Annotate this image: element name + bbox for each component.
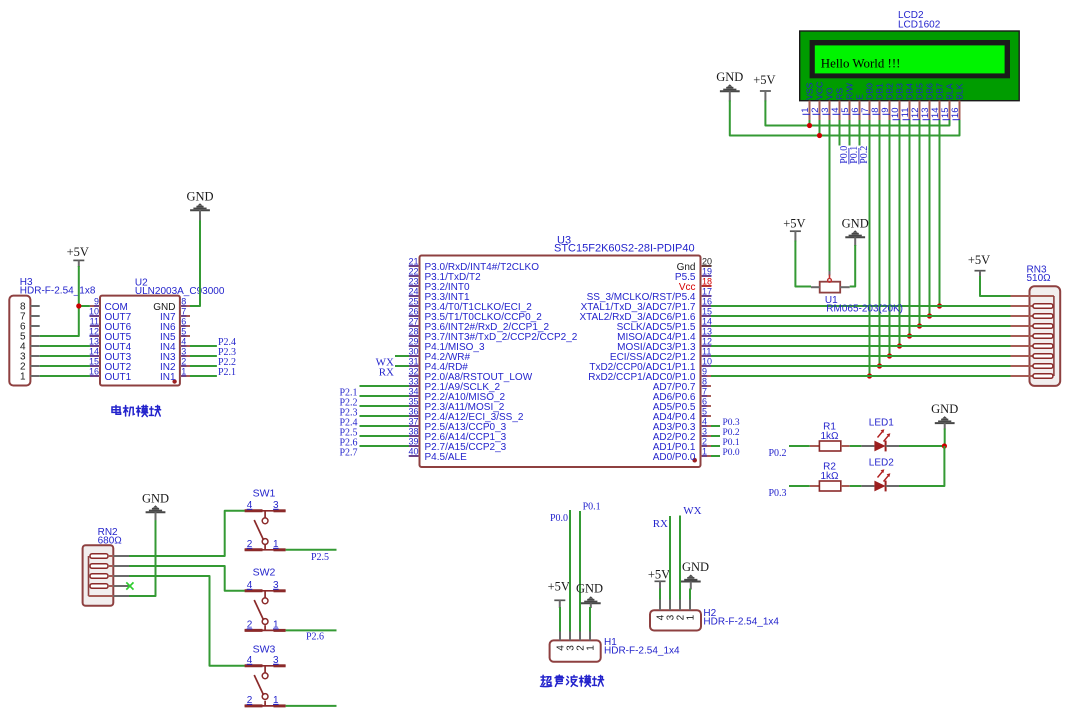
LCD pin stub 1 — [809, 101, 811, 121]
H3 pin 6 stub — [30, 325, 39, 327]
junction data bus — [907, 333, 912, 338]
svg-text:1: 1 — [273, 619, 279, 630]
svg-text:16: 16 — [950, 108, 961, 119]
svg-text:2: 2 — [702, 437, 707, 447]
U3 pin 31 stub — [409, 365, 420, 367]
wire RX stub pin31 — [395, 365, 409, 367]
svg-text:+5V: +5V — [783, 217, 805, 231]
LCD pin number 9 — [880, 108, 891, 115]
wire P1.2 bus row — [711, 355, 1011, 357]
svg-text:P2.1: P2.1 — [218, 367, 236, 378]
U3 pin 4 stub — [701, 425, 712, 427]
wire DB7 vertical to bus — [939, 120, 941, 306]
wire P2.6 stub pin38 — [360, 435, 410, 437]
svg-text:3: 3 — [181, 347, 186, 357]
net label P0.1 — [849, 146, 860, 165]
wire GND down to node — [944, 429, 946, 447]
RN3 resistor element 7 — [1011, 364, 1053, 369]
svg-text:1: 1 — [20, 372, 26, 383]
svg-text:+5V: +5V — [548, 580, 570, 594]
wire P1.7 bus row — [711, 305, 1011, 307]
U3 pin 28 stub — [409, 335, 420, 337]
wire +5V stem grey H3 — [78, 260, 80, 267]
svg-text:1: 1 — [273, 539, 279, 550]
LCD pin number 8 — [870, 108, 881, 115]
junction data bus — [927, 313, 932, 318]
U2 pin-1 marker dot — [172, 379, 176, 383]
U3 pin 23 stub — [409, 285, 420, 287]
wire P0.3 stub pin4 — [711, 425, 720, 427]
svg-text:25: 25 — [408, 297, 418, 307]
wire P0.2 stub from LCD — [859, 120, 861, 146]
svg-text:5: 5 — [702, 407, 707, 417]
U3 pin 35 stub — [409, 405, 420, 407]
header H3 reference labels — [20, 277, 96, 297]
LCD pin number 2 — [810, 108, 821, 115]
wire VSS pin1 drop — [809, 120, 811, 126]
header H1 body — [550, 640, 601, 661]
U3 pin 21 stub — [409, 265, 420, 267]
svg-text:4: 4 — [247, 655, 253, 666]
header H1 reference labels — [604, 637, 680, 657]
svg-text:+5V: +5V — [753, 73, 775, 87]
RN3 resistor element 1 — [1011, 304, 1053, 309]
U3 pin 9 stub — [701, 375, 712, 377]
svg-text:P0.1: P0.1 — [583, 502, 601, 513]
svg-text:BLA: BLA — [945, 83, 955, 100]
svg-text:8: 8 — [702, 377, 707, 387]
svg-text:E: E — [855, 94, 865, 100]
wire RN2-2 to SW2 pin4 — [129, 566, 245, 591]
RN2 resistor element 4 — [90, 584, 113, 589]
no-connect X marker — [126, 582, 133, 589]
LCD pin stub 2 — [819, 101, 821, 121]
U3 pin 30 stub — [409, 355, 420, 357]
wire GND to H2 pin1 — [689, 589, 691, 600]
resistor R2 — [810, 481, 850, 491]
H3 pin 4 stub — [30, 345, 39, 347]
svg-text:27: 27 — [408, 317, 418, 327]
wire WX stub pin30 — [395, 355, 409, 357]
RN2 pin lead 5 — [113, 595, 129, 597]
switch SW3 — [245, 666, 286, 706]
wire P0.1 stub from LCD — [849, 120, 851, 146]
H3 pin 5 stub — [30, 335, 39, 337]
junction +5V COM — [76, 303, 81, 308]
wire GND stem grey U2 — [199, 210, 201, 221]
svg-text:11: 11 — [702, 347, 711, 357]
wire DB6 vertical to bus — [929, 120, 931, 316]
svg-text:DB7: DB7 — [935, 83, 945, 100]
RN3 resistor element 6 — [1011, 354, 1053, 359]
wire WX to H2 pin2 — [679, 516, 681, 600]
wire DB5 vertical to bus — [919, 120, 921, 326]
H3 pin 3 stub — [30, 355, 39, 357]
svg-text:RM065-203(20K): RM065-203(20K) — [826, 304, 903, 315]
junction data bus — [867, 373, 872, 378]
svg-text:10: 10 — [89, 307, 99, 317]
U3 pin 11 stub — [701, 355, 712, 357]
U3 pin 14 stub — [701, 325, 712, 327]
svg-text:WX: WX — [683, 505, 701, 517]
wire +5V stem grey — [794, 231, 796, 241]
svg-text:10: 10 — [702, 357, 712, 367]
RN2 pin lead 4 — [113, 585, 129, 587]
wire +5V to H2 pin4 — [659, 589, 661, 600]
svg-text:6: 6 — [181, 317, 186, 327]
LCD pin stub 10 — [899, 101, 901, 121]
svg-text:GND: GND — [931, 402, 958, 416]
LCD pin stub 7 — [869, 101, 871, 121]
wire GND stem grey H2 — [690, 582, 692, 590]
wire GND rail to BLK pin16 — [730, 100, 960, 135]
LCD pin stub 4 — [839, 101, 841, 121]
junction data bus — [917, 323, 922, 328]
RN2 pin lead 1 — [113, 555, 129, 557]
junction data bus — [887, 353, 892, 358]
H2 pin 2 stub — [679, 600, 681, 611]
LCD pin stub 13 — [929, 101, 931, 121]
LCD pin number 7 — [860, 108, 871, 115]
wire R1 to LED1 — [850, 445, 862, 447]
LCD pin number 15 — [940, 108, 951, 120]
svg-text:DB2: DB2 — [885, 83, 895, 100]
svg-text:1: 1 — [181, 367, 186, 377]
svg-text:GND: GND — [842, 217, 869, 231]
H1 pin 2 stub — [579, 632, 581, 641]
svg-text:32: 32 — [408, 367, 418, 377]
LCD pin number 16 — [950, 108, 961, 120]
power +5V — [648, 568, 670, 582]
resistor network RN2 body — [83, 545, 114, 606]
svg-text:RX: RX — [653, 518, 668, 530]
SW1 pin numbers — [247, 500, 279, 550]
svg-text:2: 2 — [247, 695, 253, 706]
junction data bus — [877, 363, 882, 368]
wire GND to U2 pin8 — [190, 220, 200, 306]
junction VSS on +5V rail — [807, 123, 812, 128]
svg-text:P4.5/ALE: P4.5/ALE — [425, 452, 468, 463]
net label P0.0 — [839, 146, 850, 165]
MCU U3 body — [420, 256, 701, 468]
U3 pin 18 stub — [701, 285, 712, 287]
U2 pin 4 stub — [180, 345, 190, 347]
RN3 resistor element 8 — [1011, 374, 1053, 379]
wire +5V stem grey H1 — [559, 600, 561, 608]
H3 pin 7 stub — [30, 315, 39, 317]
H2 pin 1 stub — [689, 600, 691, 611]
wire DB4 vertical to bus — [909, 120, 911, 336]
U2 pin 1 stub — [180, 375, 190, 377]
svg-text:1: 1 — [585, 645, 596, 651]
wire DB2 vertical to bus — [889, 120, 891, 356]
svg-text:R/W: R/W — [845, 82, 855, 100]
wire RN2-3 to SW3 pin4 — [129, 576, 245, 666]
wire GND to H1 pin1 — [589, 607, 591, 632]
wire P0.2 to R1 — [789, 445, 810, 447]
ground — [186, 190, 213, 211]
svg-text:36: 36 — [408, 407, 418, 417]
U3 pin 36 stub — [409, 415, 420, 417]
H1 pin 4 stub — [559, 632, 561, 641]
resistor R2 labels — [820, 462, 839, 482]
wire H3 pin3 to OUT3 — [40, 355, 90, 357]
svg-text:16: 16 — [89, 367, 99, 377]
svg-text:34: 34 — [408, 387, 418, 397]
svg-text:SW2: SW2 — [253, 567, 276, 579]
svg-text:HDR-F-2.54_1x4: HDR-F-2.54_1x4 — [703, 616, 779, 627]
H3 pin 1 stub — [30, 375, 39, 377]
power +5V — [548, 580, 570, 601]
wire VO pin3 to U1 wiper — [829, 120, 831, 271]
module label 电机模块 (motor module) — [112, 405, 161, 416]
U3 pin 1 stub — [701, 455, 712, 457]
svg-text:14: 14 — [89, 347, 99, 357]
svg-text:DB3: DB3 — [895, 83, 905, 100]
U3 pin 33 stub — [409, 385, 420, 387]
switch SW2 — [245, 591, 286, 631]
wire GND stem grey RN2 — [155, 512, 157, 521]
junction VCC on GND rail — [817, 133, 822, 138]
U2 pin 3 stub — [180, 355, 190, 357]
svg-text:P0.3: P0.3 — [723, 418, 740, 428]
H1 pin 1 stub — [589, 632, 591, 641]
U3 pin 3 stub — [701, 435, 712, 437]
svg-text:1kΩ: 1kΩ — [820, 431, 839, 442]
RN2 resistor element 2 — [90, 564, 113, 569]
svg-text:BLK: BLK — [955, 83, 965, 100]
LCD pin number 4 — [830, 108, 841, 115]
wire P0.1 stub pin2 — [711, 445, 720, 447]
wire DB1 vertical to bus — [879, 120, 881, 366]
LCD pin stub 3 — [829, 101, 831, 121]
svg-text:2: 2 — [247, 619, 253, 630]
U2 pin 6 stub — [180, 325, 190, 327]
LCD pin stub 11 — [909, 101, 911, 121]
RN2 pin lead 3 — [113, 575, 129, 577]
wire P0.2 stub pin3 — [711, 435, 720, 437]
driver U2 reference labels — [135, 278, 225, 298]
U2 pin 14 stub — [90, 355, 100, 357]
svg-text:VSS: VSS — [805, 82, 815, 99]
H1 pin 3 stub — [569, 632, 571, 641]
wire GND to U1 right — [850, 245, 856, 287]
svg-text:LED2: LED2 — [869, 457, 894, 468]
wire +5V to H1 pin4 — [559, 607, 561, 632]
header H2 reference labels — [703, 608, 779, 628]
net label P0.2 — [859, 146, 870, 165]
wire P0.1 to H1 pin2 — [579, 511, 581, 632]
svg-text:3: 3 — [273, 655, 279, 666]
power +5V — [753, 73, 775, 91]
driver U2 body — [100, 296, 180, 386]
svg-text:9: 9 — [94, 297, 99, 307]
svg-text:11: 11 — [90, 317, 99, 327]
wire P2.2 stub pin34 — [360, 395, 410, 397]
svg-text:8: 8 — [181, 297, 186, 307]
svg-text:HDR-F-2.54_1x4: HDR-F-2.54_1x4 — [604, 646, 680, 657]
U3 pin 15 stub — [701, 315, 712, 317]
svg-text:IN1: IN1 — [160, 372, 176, 383]
U2 pin 7 stub — [180, 315, 190, 317]
LCD display LCD1602 body — [800, 31, 1020, 101]
LED LED1 — [861, 429, 899, 451]
LCD pin stub 12 — [919, 101, 921, 121]
U3 pin 39 stub — [409, 445, 420, 447]
MCU U3 reference labels — [554, 235, 695, 255]
U3 pin 13 stub — [701, 335, 712, 337]
wire H3 pin1 to OUT1 — [40, 375, 90, 377]
potentiometer U1 reference labels — [825, 295, 903, 315]
svg-text:STC15F2K60S2-28I-PDIP40: STC15F2K60S2-28I-PDIP40 — [554, 243, 695, 255]
U2 pin 16 stub — [90, 375, 100, 377]
svg-text:12: 12 — [702, 337, 712, 347]
svg-text:VCC: VCC — [815, 82, 825, 100]
LCD pin stub 16 — [959, 101, 961, 121]
wire +5V stub grey — [764, 91, 766, 101]
svg-text:15: 15 — [702, 307, 712, 317]
U3 pin 25 stub — [409, 305, 420, 307]
LCD pin number 6 — [850, 108, 861, 115]
svg-text:26: 26 — [408, 307, 418, 317]
junction data bus — [937, 303, 942, 308]
RN2 resistor element 1 — [90, 554, 113, 559]
svg-text:2: 2 — [181, 357, 186, 367]
svg-text:P0.1: P0.1 — [723, 438, 740, 448]
svg-text:SW1: SW1 — [253, 488, 276, 500]
svg-text:OUT1: OUT1 — [105, 372, 132, 383]
resistor network RN3 body — [1011, 286, 1061, 386]
U2 pin 12 stub — [90, 335, 100, 337]
wire +5V branch to U2 COM — [79, 305, 90, 307]
svg-text:21: 21 — [408, 257, 418, 267]
U2 pin 9 stub — [90, 305, 100, 307]
wire +5V down to H3 pin5 — [40, 266, 79, 336]
svg-text:P0.2: P0.2 — [859, 146, 870, 164]
svg-text:510Ω: 510Ω — [1027, 273, 1052, 284]
svg-text:GND: GND — [576, 582, 603, 596]
U3 pin 38 stub — [409, 435, 420, 437]
wire R2 to LED2 — [850, 485, 862, 487]
wire P2.5 stub pin37 — [360, 425, 410, 427]
svg-text:P0.2: P0.2 — [723, 428, 740, 438]
svg-text:P2.7: P2.7 — [339, 448, 357, 459]
svg-text:30: 30 — [408, 347, 418, 357]
U3 pin 24 stub — [409, 295, 420, 297]
module label 超声波模块 (ultrasonic module) — [541, 675, 604, 687]
svg-text:1: 1 — [702, 447, 707, 457]
U3 pin 19 stub — [701, 275, 712, 277]
svg-text:38: 38 — [408, 427, 418, 437]
wire P0.0 to H1 pin3 — [569, 510, 571, 632]
U2 pin 10 stub — [90, 315, 100, 317]
svg-text:31: 31 — [408, 357, 418, 367]
wire GND stem grey LED — [944, 423, 946, 429]
U3 pin-1 marker dot — [692, 458, 697, 463]
svg-text:4: 4 — [702, 417, 707, 427]
wire +5V to RN3 common — [980, 276, 1011, 296]
wire P2.3 stub pin35 — [360, 405, 410, 407]
svg-text:13: 13 — [702, 327, 712, 337]
U3 pin 27 stub — [409, 325, 420, 327]
U3 pin 16 stub — [701, 305, 712, 307]
svg-text:LED1: LED1 — [869, 417, 894, 428]
resistor R1 — [810, 441, 850, 451]
RN3 resistor element 3 — [1011, 324, 1053, 329]
U2 pin 11 stub — [90, 325, 100, 327]
LCD pin number 5 — [840, 108, 851, 115]
power +5V — [783, 217, 805, 232]
wire IN1 to P2.1 — [190, 375, 217, 377]
wire SW2 pin1 out — [286, 629, 337, 631]
svg-text:6: 6 — [702, 397, 707, 407]
RN3 resistor element 5 — [1011, 344, 1053, 349]
ground — [576, 582, 603, 604]
wire P2.4 stub pin36 — [360, 415, 410, 417]
svg-text:40: 40 — [408, 447, 418, 457]
H3 pin 2 stub — [30, 365, 39, 367]
svg-text:39: 39 — [408, 437, 418, 447]
svg-text:RS: RS — [835, 88, 845, 100]
svg-text:24: 24 — [408, 287, 418, 297]
U3 pin 20 stub — [701, 265, 712, 267]
svg-text:17: 17 — [702, 287, 712, 297]
svg-text:37: 37 — [408, 417, 418, 427]
U3 pin 17 stub — [701, 295, 712, 297]
svg-text:P0.2: P0.2 — [768, 448, 786, 459]
U2 pin 8 stub — [180, 305, 190, 307]
svg-text:GND: GND — [716, 70, 743, 84]
LCD pin stub 15 — [949, 101, 951, 121]
LCD pin stub 8 — [879, 101, 881, 121]
U3 pin 32 stub — [409, 375, 420, 377]
wire P1.6 bus row — [711, 315, 1011, 317]
wire GND node to LED2 row — [899, 446, 944, 486]
svg-text:2: 2 — [247, 539, 253, 550]
U3 pin 5 stub — [701, 415, 712, 417]
power +5V — [67, 245, 89, 260]
wire P0.0 stub pin1 — [711, 455, 720, 457]
svg-text:VO: VO — [825, 87, 835, 100]
svg-text:Hello World !!!: Hello World !!! — [821, 57, 901, 71]
SW3 pin numbers — [247, 655, 279, 706]
SW2 pin numbers — [247, 580, 279, 631]
svg-text:16: 16 — [702, 297, 712, 307]
ground — [716, 70, 743, 91]
svg-text:SW3: SW3 — [253, 644, 276, 656]
LCD pin number 1 — [800, 108, 811, 115]
wire DB0 vertical to bus — [869, 120, 871, 376]
svg-text:3: 3 — [702, 427, 707, 437]
wire +5V to U1 left — [795, 241, 811, 287]
svg-text:14: 14 — [702, 317, 712, 327]
svg-text:35: 35 — [408, 397, 418, 407]
svg-text:33: 33 — [408, 377, 418, 387]
U3 pin 40 stub — [409, 455, 420, 457]
ground — [142, 491, 169, 512]
svg-text:20: 20 — [702, 257, 712, 267]
U3 pin 2 stub — [701, 445, 712, 447]
wire P1.4 bus row — [711, 335, 1011, 337]
wire LED1 to GND node — [899, 445, 944, 447]
svg-text:1kΩ: 1kΩ — [820, 471, 839, 482]
power +5V — [968, 253, 990, 271]
svg-text:28: 28 — [408, 327, 418, 337]
H2 pin 3 stub — [669, 600, 671, 611]
svg-text:19: 19 — [702, 267, 712, 277]
wire SW1 pin1 out — [286, 549, 337, 551]
wire GND stem grey — [854, 237, 856, 246]
